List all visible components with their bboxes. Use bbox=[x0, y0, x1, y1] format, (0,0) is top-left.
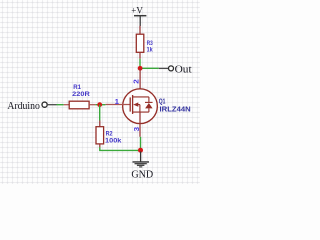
wire R3 to node bbox=[139, 59, 141, 67]
ground bar 1 bbox=[133, 161, 150, 163]
svg-text:Q1: Q1 bbox=[159, 99, 166, 106]
power symbol stem bbox=[139, 16, 141, 26]
resistor R2 pin top bbox=[99, 121, 101, 127]
svg-text:3: 3 bbox=[132, 127, 141, 132]
ground bar 4 bbox=[139, 166, 142, 168]
resistor R2 pin bottom bbox=[99, 144, 101, 148]
power symbol +V bar bbox=[134, 15, 146, 17]
ground stem bbox=[140, 152, 142, 162]
svg-text:GND: GND bbox=[131, 168, 153, 180]
transistor Q1 source pin bbox=[139, 112, 141, 137]
transistor Q1 bulk arrow bbox=[133, 102, 138, 106]
junction node gate/R2 bbox=[97, 102, 102, 107]
body diode triangle bbox=[145, 103, 153, 108]
junction node drain/Out bbox=[138, 66, 143, 71]
svg-text:1k: 1k bbox=[147, 47, 154, 54]
svg-text:Arduino: Arduino bbox=[7, 100, 40, 112]
resistor R1 pin right bbox=[89, 104, 96, 106]
body diode anode lead bbox=[148, 108, 150, 112]
wire R2 to ground rail bbox=[100, 147, 141, 150]
wire node to Out bbox=[140, 67, 159, 69]
svg-text:2: 2 bbox=[132, 79, 141, 84]
port Out stub bbox=[159, 67, 169, 69]
svg-text:220R: 220R bbox=[72, 91, 90, 98]
resistor R3 body bbox=[136, 34, 144, 52]
grid background bbox=[0, 0, 200, 184]
port Arduino stub bbox=[48, 104, 57, 106]
wire R1 to node bbox=[96, 104, 106, 106]
transistor Q1 gate line bbox=[105, 104, 130, 106]
body diode cathode lead bbox=[148, 97, 150, 103]
transistor Q1 drain pin bbox=[139, 68, 141, 97]
resistor R3 pin top bbox=[139, 26, 141, 34]
port Arduino circle bbox=[42, 102, 47, 107]
svg-text:IRLZ44N: IRLZ44N bbox=[160, 106, 191, 113]
transistor Q1 drain stub bbox=[133, 96, 149, 98]
transistor Q1 gate plate bbox=[129, 97, 131, 111]
ground bar 3 bbox=[137, 164, 145, 166]
svg-text:100k: 100k bbox=[105, 137, 122, 144]
ground bar 2 bbox=[135, 163, 147, 165]
wire source to ground rail bbox=[140, 137, 142, 151]
port Out circle bbox=[169, 66, 174, 71]
wire port to R1 bbox=[57, 104, 64, 106]
resistor R3 pin bottom bbox=[139, 52, 141, 59]
transistor Q1 source stub bbox=[133, 111, 149, 113]
transistor Q1 body circle bbox=[123, 89, 158, 124]
svg-text:Out: Out bbox=[175, 64, 192, 76]
svg-text:1: 1 bbox=[115, 97, 119, 106]
junction node ground bbox=[138, 148, 143, 153]
transistor Q1 channel bbox=[132, 95, 134, 114]
resistor R1 body bbox=[69, 101, 89, 109]
resistor R1 pin left bbox=[64, 104, 69, 106]
body diode cathode bar bbox=[145, 101, 153, 103]
wire node down to R2 bbox=[99, 105, 101, 121]
transistor Q1 bulk line bbox=[138, 105, 140, 113]
resistor R2 body bbox=[96, 127, 104, 144]
